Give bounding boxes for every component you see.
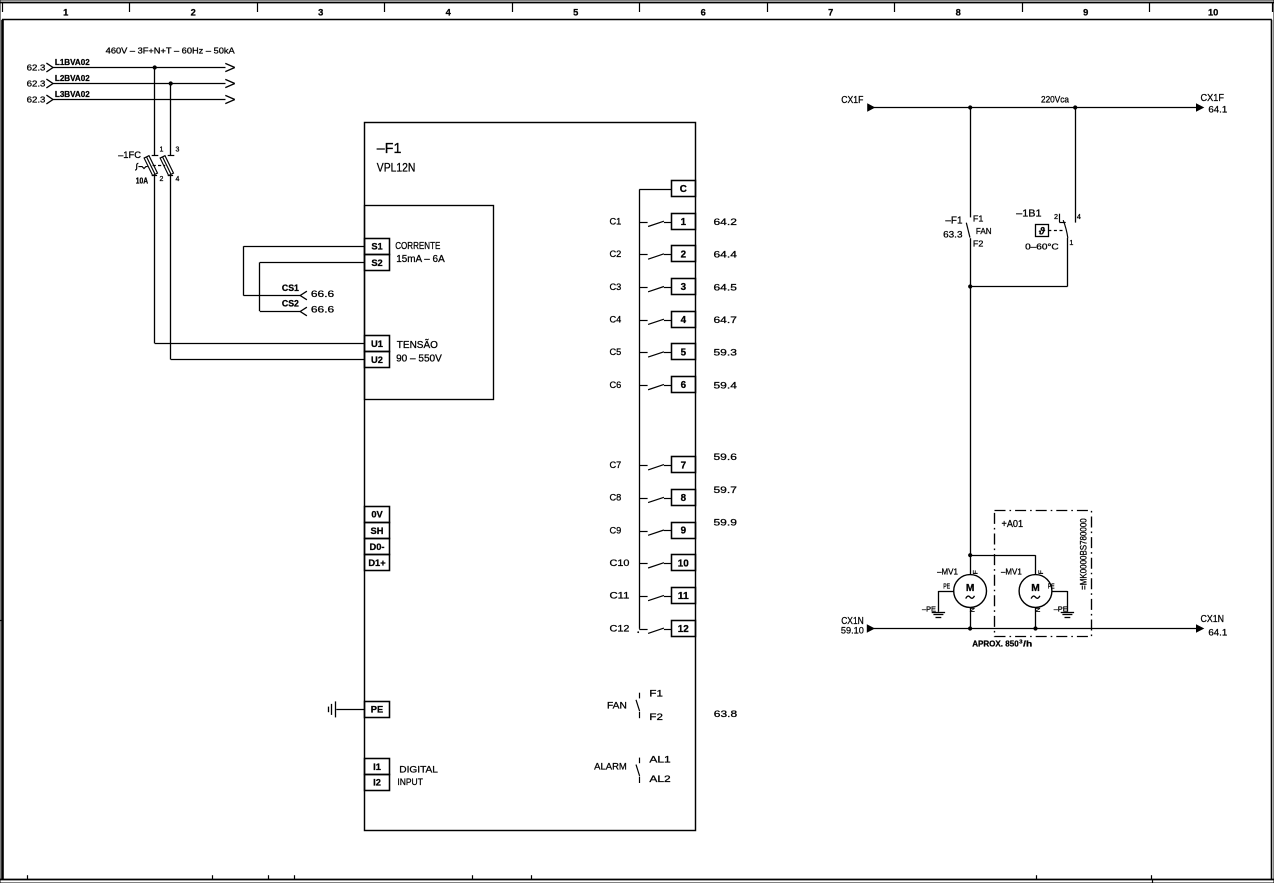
terminal 5 box xyxy=(672,344,696,360)
svg-text:64.2: 64.2 xyxy=(714,217,737,228)
breaker -1FC pole at x=154.7: bottom tick xyxy=(152,175,157,177)
breaker -1FC pole at x=154.7: top tick xyxy=(152,155,159,157)
source chevron L2 xyxy=(46,79,53,88)
svg-text:9: 9 xyxy=(1083,8,1088,18)
contact tick terminal 1 xyxy=(639,222,647,224)
svg-text:1: 1 xyxy=(1069,238,1073,247)
wire ground to PE xyxy=(336,709,364,711)
svg-text:SH: SH xyxy=(371,526,384,536)
svg-text:–1FC: –1FC xyxy=(118,150,141,161)
thermostat pin 2 stub xyxy=(1059,214,1061,222)
terminal 4 box xyxy=(672,312,696,328)
thermostat blade pin1 to pin2 xyxy=(1063,220,1068,238)
wire branch down to motor MV1 right xyxy=(1035,555,1037,574)
svg-text:1: 1 xyxy=(160,146,164,153)
svg-text:220Vca: 220Vca xyxy=(1041,94,1069,104)
ALARM contact symbol xyxy=(639,758,641,764)
svg-text:F1: F1 xyxy=(649,687,663,698)
svg-text:C2: C2 xyxy=(610,249,622,260)
svg-text:2: 2 xyxy=(1054,212,1058,221)
wire L1 drop to breaker pole 1-2 xyxy=(154,68,156,156)
svg-text:–F1: –F1 xyxy=(377,141,402,157)
svg-text:C: C xyxy=(680,184,687,195)
svg-text:CS2: CS2 xyxy=(282,299,299,309)
svg-text:=MK0000BS780000: =MK0000BS780000 xyxy=(1079,518,1089,590)
frame: bottom line (title block top) xyxy=(0,879,1274,881)
motor -MV1 right ac tilde mark xyxy=(1031,596,1040,599)
contact tick terminal 11 xyxy=(639,596,647,598)
arrowhead L3 right xyxy=(225,95,235,103)
junction CX1F at fan branch xyxy=(968,105,972,109)
wire to CS1 chevron xyxy=(244,295,301,297)
svg-text:10: 10 xyxy=(1208,8,1218,18)
svg-text:59.3: 59.3 xyxy=(714,348,737,359)
svg-text:S2: S2 xyxy=(371,258,382,268)
wire blade to terminal 10 xyxy=(664,563,671,565)
wire S2 left xyxy=(260,262,365,264)
wire blade to terminal 4 xyxy=(664,320,671,322)
svg-text:4: 4 xyxy=(175,176,179,183)
contact tick terminal 4 xyxy=(639,320,647,322)
wire down to motor MV1 left xyxy=(970,287,972,575)
thermostat pin 2 contact seat xyxy=(1059,222,1065,224)
svg-text:10: 10 xyxy=(678,558,690,569)
svg-text:CS1: CS1 xyxy=(282,283,299,293)
junction on L1 xyxy=(153,65,157,69)
terminal D0- box xyxy=(365,539,390,555)
breaker -1FC thermal trip symbol xyxy=(135,163,138,170)
wire CX1F down to fuse -F1 xyxy=(970,108,972,218)
svg-text:–PE: –PE xyxy=(922,605,936,614)
wire blade to terminal 12 xyxy=(664,629,671,631)
breaker -1FC pole at x=170.7: bottom tick xyxy=(168,175,173,177)
svg-text:64.5: 64.5 xyxy=(714,282,737,293)
svg-text:VPL12N: VPL12N xyxy=(377,163,416,175)
terminal 12 box xyxy=(672,621,696,637)
svg-text:–MV1: –MV1 xyxy=(1001,568,1022,577)
terminal S2 box xyxy=(365,255,390,271)
wire blade to terminal 2 xyxy=(664,254,671,256)
contact blade terminal 1 xyxy=(648,221,664,226)
contact blade terminal 12 xyxy=(648,628,664,633)
svg-text:CX1F: CX1F xyxy=(1201,92,1225,104)
svg-text:62.3: 62.3 xyxy=(27,78,46,88)
contact tick terminal 9 xyxy=(639,531,647,533)
junction at CX1N right xyxy=(1033,626,1037,630)
svg-text:4: 4 xyxy=(446,8,452,18)
wire branch horizontal to motor 2 xyxy=(970,555,1035,557)
svg-text:59.10: 59.10 xyxy=(841,626,864,637)
svg-text:INPUT: INPUT xyxy=(397,777,423,788)
svg-text:FAN: FAN xyxy=(607,700,627,711)
chevron CS1 xyxy=(300,291,307,300)
svg-text:3: 3 xyxy=(318,8,323,18)
svg-text:64.4: 64.4 xyxy=(714,250,737,261)
wire L2 drop to breaker pole 3-4 xyxy=(170,84,172,156)
terminal 1 box xyxy=(672,214,696,230)
wire PE right motor down xyxy=(1067,591,1069,612)
svg-text:U2: U2 xyxy=(371,355,383,365)
svg-text:59.9: 59.9 xyxy=(714,518,737,529)
svg-text:C6: C6 xyxy=(610,380,622,391)
svg-text:C9: C9 xyxy=(610,525,622,536)
svg-text:F2: F2 xyxy=(649,711,663,722)
svg-text:–F1: –F1 xyxy=(945,215,963,226)
contact blade terminal 3 xyxy=(648,287,664,292)
svg-text:L3BVA02: L3BVA02 xyxy=(55,89,90,99)
svg-text:4: 4 xyxy=(1077,212,1081,221)
wire pole4 down xyxy=(170,175,172,359)
wire L3 phase line xyxy=(53,99,226,101)
contact tick terminal 2 xyxy=(639,254,647,256)
breaker -1FC mechanical link (dashed) xyxy=(153,165,166,167)
terminal SH box xyxy=(365,523,390,539)
net CX1N bus line xyxy=(874,628,1197,630)
svg-text:2: 2 xyxy=(681,250,687,261)
svg-text:C1: C1 xyxy=(610,217,622,228)
terminal 3 box xyxy=(672,279,696,295)
svg-text:3: 3 xyxy=(681,282,687,293)
frame: drawing border left xyxy=(1,20,4,879)
contact blade terminal 8 xyxy=(648,497,664,502)
wire blade to terminal 7 xyxy=(664,465,671,467)
svg-text:CX1N: CX1N xyxy=(1201,613,1225,625)
svg-text:–MV1: –MV1 xyxy=(937,568,958,577)
svg-text:APROX. 850: APROX. 850 xyxy=(972,640,1019,649)
svg-text:66.6: 66.6 xyxy=(311,289,334,299)
wire bus to terminal C xyxy=(639,189,671,191)
source chevron L1 xyxy=(46,63,53,72)
terminal 7 box xyxy=(672,457,696,473)
svg-text:PE: PE xyxy=(943,582,950,591)
svg-text:FAN: FAN xyxy=(976,226,992,236)
svg-text:AL1: AL1 xyxy=(649,753,670,764)
wire S1 down xyxy=(243,246,245,295)
svg-text:62.3: 62.3 xyxy=(27,95,46,105)
wire PE left motor horizontal xyxy=(938,591,953,593)
contact blade terminal 10 xyxy=(648,563,664,568)
svg-text:64.1: 64.1 xyxy=(1208,104,1227,115)
svg-text:CX1F: CX1F xyxy=(841,94,863,106)
thermostat sensor box xyxy=(1036,225,1049,237)
svg-text:6: 6 xyxy=(701,8,706,18)
svg-text:4: 4 xyxy=(681,315,687,326)
terminal 0V box xyxy=(365,507,390,523)
svg-text:460V – 3F+N+T – 60Hz – 50kA: 460V – 3F+N+T – 60Hz – 50kA xyxy=(106,46,235,56)
contact blade terminal 5 xyxy=(648,352,664,357)
common bus vertical xyxy=(639,190,641,629)
svg-text:6: 6 xyxy=(681,380,687,391)
wire to U1 xyxy=(155,343,365,345)
svg-text:3: 3 xyxy=(175,146,179,153)
svg-text:–PE: –PE xyxy=(1054,605,1068,614)
svg-text:5: 5 xyxy=(681,348,687,359)
terminal 9 box xyxy=(672,523,696,539)
svg-text:F2: F2 xyxy=(973,239,984,249)
contact tick terminal 5 xyxy=(639,352,647,354)
svg-text:M: M xyxy=(966,583,975,594)
frame: drawing border top xyxy=(2,19,1272,21)
wire blade to terminal 8 xyxy=(664,498,671,500)
motor -MV1 left circle xyxy=(954,575,987,608)
svg-text:F1: F1 xyxy=(973,213,984,223)
svg-text:C3: C3 xyxy=(610,282,622,293)
wire CX1F down to thermostat pin 4 xyxy=(1075,108,1077,223)
svg-text:C12: C12 xyxy=(610,623,630,634)
svg-text:L1BVA02: L1BVA02 xyxy=(55,57,90,67)
junction dot fan branch xyxy=(968,284,972,288)
svg-text:ϑ: ϑ xyxy=(1038,226,1046,237)
svg-text:59.4: 59.4 xyxy=(714,380,737,391)
wire S1 left xyxy=(244,246,365,248)
terminal U2 box xyxy=(365,352,390,368)
junction on L2 xyxy=(169,81,173,85)
source chevron L3 xyxy=(46,95,53,104)
svg-text:I2: I2 xyxy=(373,778,381,788)
terminal U1 box xyxy=(365,336,390,352)
motor -MV1 right circle xyxy=(1019,575,1052,608)
wire L2 phase line xyxy=(53,83,226,85)
wire PE left motor down xyxy=(938,591,940,612)
breaker -1FC pole at x=170.7: tilted body xyxy=(160,156,173,176)
frame: ruler top line xyxy=(0,2,1274,4)
contact blade terminal 9 xyxy=(648,530,664,535)
contact blade terminal 6 xyxy=(648,384,664,389)
svg-text:11: 11 xyxy=(678,591,690,602)
wire PE right motor horizontal xyxy=(1052,591,1068,593)
arrow CX1N right (outgoing) xyxy=(1197,625,1204,632)
svg-text:64.7: 64.7 xyxy=(714,315,737,326)
svg-text:2: 2 xyxy=(191,8,196,18)
svg-text:D0-: D0- xyxy=(370,542,385,552)
terminal 2 box xyxy=(672,246,696,262)
wire to U2 xyxy=(171,359,365,361)
svg-text:59.6: 59.6 xyxy=(714,452,737,463)
arrowhead L2 right xyxy=(225,79,235,87)
terminal I2 box xyxy=(365,775,390,791)
breaker -1FC pole at x=154.7: tilted body xyxy=(144,156,157,176)
wire to CS2 chevron xyxy=(260,311,300,313)
svg-text:7: 7 xyxy=(828,8,833,18)
svg-text:TENSÃO: TENSÃO xyxy=(397,338,438,351)
fuse -F1 blade xyxy=(966,223,970,238)
wire blade to terminal 9 xyxy=(664,530,671,532)
arrow CX1F left (incoming) xyxy=(868,104,875,111)
wire blade to terminal 1 xyxy=(664,222,671,224)
contact blade terminal 4 xyxy=(648,319,664,324)
FAN contact symbol xyxy=(639,693,641,699)
contact tick terminal 6 xyxy=(639,385,647,387)
wire pole2 down xyxy=(154,175,156,343)
wire blade to terminal 6 xyxy=(664,385,671,387)
ground symbol right motor xyxy=(1061,612,1074,614)
svg-text:AL2: AL2 xyxy=(649,773,670,784)
junction at CX1N left xyxy=(968,626,972,630)
terminal 10 box xyxy=(672,555,696,571)
motor -MV1 right bottom wire xyxy=(1035,607,1037,628)
svg-text:9: 9 xyxy=(681,526,687,537)
svg-text:/h: /h xyxy=(1023,640,1032,649)
svg-text:ALARM: ALARM xyxy=(594,760,627,771)
svg-text:F: F xyxy=(973,570,980,574)
junction branch to motor 2 xyxy=(968,553,972,557)
svg-text:S1: S1 xyxy=(371,242,382,252)
chevron CS2 xyxy=(300,307,307,316)
svg-text:C4: C4 xyxy=(610,314,622,325)
svg-text:L2BVA02: L2BVA02 xyxy=(55,73,90,83)
enclosure +A01 dash-dot box xyxy=(995,511,1092,637)
terminal 6 box xyxy=(672,377,696,393)
svg-text:PE: PE xyxy=(1048,582,1055,591)
svg-text:C8: C8 xyxy=(610,493,622,504)
terminal PE box xyxy=(365,702,390,718)
frame: title block cell ticks xyxy=(27,875,29,879)
terminal C box xyxy=(672,181,696,197)
contact tick terminal 3 xyxy=(639,287,647,289)
motor -MV1 left ac tilde mark xyxy=(966,596,975,599)
svg-text:62.3: 62.3 xyxy=(27,62,46,72)
svg-text:10A: 10A xyxy=(136,176,148,185)
frame: left row divider tick xyxy=(0,620,3,622)
contact blade terminal 2 xyxy=(648,254,664,259)
contact blade terminal 11 xyxy=(648,595,664,600)
svg-text:5: 5 xyxy=(573,8,578,18)
wire S2 down xyxy=(259,262,261,311)
svg-text:0–60°C: 0–60°C xyxy=(1025,243,1059,252)
svg-text:59.7: 59.7 xyxy=(714,485,737,496)
svg-text:C10: C10 xyxy=(610,558,630,569)
svg-text:15mA – 6A: 15mA – 6A xyxy=(396,254,445,265)
svg-text:2: 2 xyxy=(160,176,164,183)
svg-text:DIGITAL: DIGITAL xyxy=(399,765,438,776)
terminal D1+ box xyxy=(365,555,390,571)
junction CX1F at thermostat branch xyxy=(1073,105,1077,109)
contact tick terminal 10 xyxy=(639,563,647,565)
arrowhead L1 right xyxy=(225,63,235,71)
svg-text:CORRENTE: CORRENTE xyxy=(395,241,440,252)
svg-text:7: 7 xyxy=(681,460,687,471)
terminal S1 box xyxy=(365,239,390,255)
svg-text:C5: C5 xyxy=(610,347,622,358)
device -F1 outline xyxy=(365,123,696,831)
svg-text:1: 1 xyxy=(63,8,68,18)
device -F1 inner measuring section box xyxy=(365,206,494,400)
net CX1F bus line xyxy=(874,107,1197,109)
svg-text:1: 1 xyxy=(681,217,687,228)
frame: drawing border right xyxy=(1271,20,1273,879)
stray junction mark at C12 xyxy=(637,631,639,633)
contact tick terminal 8 xyxy=(639,498,647,500)
wire thermostat pin1 down to junction link xyxy=(1067,238,1069,287)
svg-text:C11: C11 xyxy=(610,591,630,602)
svg-text:F: F xyxy=(1038,570,1045,574)
svg-text:PE: PE xyxy=(371,705,383,715)
wire L1 phase line xyxy=(53,67,226,69)
svg-text:C7: C7 xyxy=(610,460,622,471)
wire fuse to junction xyxy=(970,238,972,286)
contact blade terminal 7 xyxy=(648,465,664,470)
contact tick terminal 12 xyxy=(639,629,647,631)
svg-text:8: 8 xyxy=(681,493,687,504)
svg-text:66.6: 66.6 xyxy=(311,305,334,315)
terminal I1 box xyxy=(365,759,390,775)
terminal 8 box xyxy=(672,490,696,506)
wire blade to terminal 3 xyxy=(664,287,671,289)
arrow CX1F right (outgoing) xyxy=(1197,104,1204,111)
frame: ruler column ticks xyxy=(2,3,4,13)
svg-text:90 – 550V: 90 – 550V xyxy=(396,354,442,365)
svg-text:M: M xyxy=(1031,583,1040,594)
svg-text:63.8: 63.8 xyxy=(714,709,737,720)
svg-text:12: 12 xyxy=(678,624,690,635)
wire junction horizontal xyxy=(970,286,1067,288)
svg-text:63.3: 63.3 xyxy=(943,230,962,241)
ground symbol at PE xyxy=(335,701,337,717)
svg-text:+A01: +A01 xyxy=(1002,519,1024,530)
thermostat dashed actuation link xyxy=(1048,230,1064,232)
svg-text:D1+: D1+ xyxy=(368,558,386,568)
contact tick terminal 7 xyxy=(639,465,647,467)
terminal 11 box xyxy=(672,588,696,604)
svg-text:8: 8 xyxy=(956,8,961,18)
wire blade to terminal 5 xyxy=(664,352,671,354)
svg-text:64.1: 64.1 xyxy=(1208,628,1227,639)
svg-text:–1B1: –1B1 xyxy=(1016,207,1042,219)
svg-text:U1: U1 xyxy=(371,339,383,349)
ground symbol left motor xyxy=(932,612,945,614)
svg-text:I1: I1 xyxy=(373,762,381,772)
wire blade to terminal 11 xyxy=(664,596,671,598)
arrow CX1N left (incoming) xyxy=(867,625,874,632)
breaker -1FC pole at x=170.7: top tick xyxy=(168,155,175,157)
svg-text:0V: 0V xyxy=(371,510,383,520)
motor -MV1 left bottom wire xyxy=(970,607,972,628)
